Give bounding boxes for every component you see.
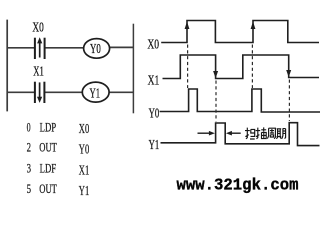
waveform X1 — [163, 55, 320, 79]
waveform Y0 — [160, 89, 320, 112]
dashed node line at X1 fall 2 — [288, 80, 290, 122]
svg-text:Y1: Y1 — [90, 86, 101, 101]
wire rung1 mid — [45, 47, 84, 49]
dashed node line at X0 rise 1 — [187, 45, 189, 89]
svg-text:5: 5 — [27, 181, 31, 196]
instruction list line 1 — [27, 119, 90, 136]
wire rung2 right — [109, 91, 134, 93]
coil Y1 — [82, 82, 109, 102]
instruction list line 3 — [27, 160, 90, 177]
char 扫 — [245, 128, 255, 139]
waveform Y1 — [161, 123, 320, 146]
dashed node line at X1 fall 1 — [215, 81, 217, 122]
wire rung2 left — [7, 91, 35, 93]
right power rail — [132, 24, 134, 114]
label scan period 扫描周期 (drawn strokes) — [245, 127, 286, 139]
coil Y0 — [84, 39, 110, 59]
svg-text:Y0: Y0 — [79, 141, 90, 156]
svg-text:OUT: OUT — [39, 139, 57, 154]
svg-text:Y0: Y0 — [90, 42, 101, 57]
svg-text:www.321gk.com: www.321gk.com — [177, 176, 299, 195]
svg-text:X1: X1 — [148, 73, 160, 88]
svg-text:0: 0 — [27, 119, 31, 134]
svg-text:3: 3 — [27, 160, 31, 175]
svg-text:X0: X0 — [32, 21, 43, 36]
left power rail — [6, 20, 8, 112]
svg-text:Y1: Y1 — [149, 138, 160, 153]
wire rung1 left — [7, 47, 35, 49]
waveform X0 — [161, 21, 319, 43]
char 期 — [276, 128, 285, 138]
contact X1 falling-edge bar2 — [43, 82, 45, 103]
instruction list line 2 — [27, 139, 90, 156]
wire rung1 right — [110, 46, 135, 48]
instruction list line 4 — [27, 181, 90, 198]
X0 rising-edge arrow 1 — [185, 22, 190, 30]
svg-text:OUT: OUT — [39, 181, 57, 196]
svg-text:X0: X0 — [79, 121, 90, 136]
svg-text:X1: X1 — [79, 162, 89, 177]
scan-period dimension arrow right — [226, 131, 241, 136]
svg-text:2: 2 — [27, 139, 31, 154]
char 周 — [267, 128, 275, 139]
contact X0 up arrow — [37, 37, 42, 57]
scan-period dimension arrow left — [198, 131, 215, 136]
contact X0 rising-edge bar2 — [44, 38, 46, 59]
X1 falling-edge arrow 1 — [213, 71, 218, 78]
X1 falling-edge arrow 2 — [286, 70, 291, 77]
svg-text:X1: X1 — [33, 65, 44, 80]
char 描 — [256, 127, 267, 138]
contact X1 falling-edge bar1 — [34, 82, 36, 103]
contact X1 down arrow — [37, 82, 42, 103]
svg-text:Y0: Y0 — [149, 106, 160, 121]
X0 rising-edge arrow 2 — [251, 22, 256, 30]
contact X0 rising-edge bar1 — [34, 38, 36, 59]
dashed node line at X0 rise 2 — [251, 45, 253, 89]
svg-text:LDP: LDP — [40, 119, 57, 134]
wire rung2 mid — [45, 91, 83, 93]
svg-text:Y1: Y1 — [79, 183, 89, 198]
svg-text:LDF: LDF — [40, 160, 57, 175]
svg-text:X0: X0 — [147, 37, 159, 52]
